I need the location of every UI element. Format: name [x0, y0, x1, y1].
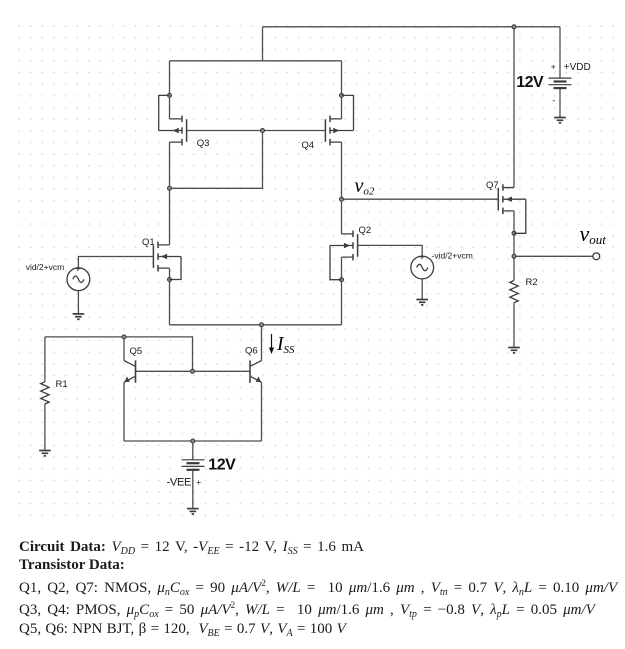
ground (below R2): [508, 348, 520, 353]
wire: Q3 drain down to Q1 drain: [169, 142, 171, 245]
wire: source -vid/2+vcm to ground: [421, 279, 423, 300]
wire: Q4 source lead: [341, 61, 343, 119]
junction: VDD rail / Q7 drain: [512, 25, 516, 29]
wire: R2 top: [513, 256, 515, 280]
transistor Q3 (PMOS, gate right): [159, 95, 187, 145]
wire: vo2 to Q7 gate: [342, 198, 499, 200]
wire: Q1 source down to tail rail: [169, 268, 171, 325]
wire: R2 bottom to ground: [513, 303, 515, 348]
wire: tail rail ISS: [170, 324, 342, 326]
resistor R1: [41, 382, 49, 404]
junction: Q4 source-body tie: [340, 93, 344, 97]
svg-text:Q7: Q7: [486, 180, 499, 191]
text: circuit data line: [19, 539, 364, 556]
junction: base rail riser: [191, 369, 195, 373]
wire: Q7 drain from VDD rail: [513, 27, 515, 188]
svg-text:+: +: [551, 62, 556, 72]
svg-text:vid/2+vcm: vid/2+vcm: [26, 262, 65, 272]
wire: battery V1 negative stem to ground: [559, 88, 561, 117]
junction: Q1 source-body tie: [168, 278, 172, 282]
text: PMOS data line: [19, 600, 595, 619]
wire: emitter rail: [124, 440, 262, 442]
current arrow ISS: [269, 334, 274, 354]
wire: R1 riser: [44, 337, 46, 382]
svg-text:+VDD: +VDD: [564, 62, 591, 73]
wire: battery V2 stem from emitter rail: [192, 441, 194, 460]
wire: Q5-Q6 base rail: [136, 370, 251, 372]
wire: tail rail down to Q6 collector: [261, 325, 263, 361]
battery V1 +VDD 12V: [549, 78, 572, 88]
transistor Q4 (PMOS, gate left, mirrored): [325, 95, 353, 145]
svg-text:12V: 12V: [516, 74, 544, 91]
svg-text:-: -: [552, 95, 555, 105]
wire: R1 bottom to ground: [44, 404, 46, 451]
junction: Q7 source-body tie: [512, 231, 516, 235]
resistor R2: [510, 281, 518, 303]
junction: Q3 source-body tie: [168, 93, 172, 97]
wire: battery V1 positive stem from VDD rail: [559, 27, 561, 78]
source V3 vid/2+vcm: [67, 266, 90, 290]
source V4 -vid/2+vcm: [411, 255, 434, 279]
wire: Q2 gate from source -vid/2+vcm: [358, 245, 423, 256]
svg-text:-vid/2+vcm: -vid/2+vcm: [432, 250, 473, 260]
svg-text:+: +: [196, 477, 201, 487]
junction: Q3 drain / diode tap: [168, 186, 172, 190]
wire: gate-to-drain diode tap of Q3: [170, 131, 263, 189]
svg-text:Q1: Q1: [142, 237, 155, 248]
text: NMOS data line: [19, 578, 617, 597]
svg-text:Q4: Q4: [302, 140, 315, 151]
ground (below source -vid/2+vcm): [416, 300, 428, 305]
junction: tail rail / Q6 collector: [260, 323, 264, 327]
junction: node vout: [512, 254, 516, 258]
svg-text:-VEE: -VEE: [167, 477, 191, 489]
wire: battery V2 to ground: [192, 470, 194, 508]
transistor Q5 (NPN BJT, mirrored, emitter left): [124, 360, 136, 382]
junction: emitter rail / battery V2: [191, 439, 195, 443]
wire: PMOS source rail: [170, 60, 342, 62]
svg-text:Q5: Q5: [130, 346, 143, 357]
output terminal vout: [593, 253, 600, 260]
junction: R1 node / Q5 collector: [122, 335, 126, 339]
wire: Q6 emitter down: [261, 382, 263, 441]
wire: riser from PMOS mirror to VDD rail: [262, 27, 264, 61]
text: transistor data heading: [19, 557, 125, 574]
wire: Q5 emitter down: [123, 382, 125, 441]
wire: VDD top rail: [263, 26, 561, 28]
junction: mirror gate node: [261, 129, 265, 133]
svg-text:R2: R2: [526, 277, 538, 288]
ground (below battery V1): [554, 118, 566, 123]
wire: Q3 source lead: [169, 61, 171, 119]
ground (below R1): [39, 451, 51, 456]
battery V2 -VEE 12V: [182, 460, 205, 470]
text: BJT data line: [19, 621, 346, 638]
wire: vout stub to terminal: [514, 255, 593, 257]
wire: Q3-Q4 gate rail: [187, 130, 326, 132]
transistor Q2 (NMOS, gate right, mirrored): [330, 231, 358, 280]
transistor Q7 (NMOS, gate left): [498, 184, 526, 233]
ground (below battery V2): [187, 509, 199, 514]
svg-text:Q2: Q2: [359, 225, 372, 236]
junction: node vo2: [340, 197, 344, 201]
svg-text:Q3: Q3: [197, 138, 210, 149]
svg-text:Q6: Q6: [245, 346, 258, 357]
ground (below source vid/2+vcm): [73, 314, 85, 319]
transistor Q1 (NMOS, gate left): [153, 242, 181, 280]
wire: Q7 source down to vout node: [513, 211, 515, 256]
wire: Q5 collector riser: [123, 337, 125, 361]
wire: source vid/2+vcm to ground: [77, 291, 79, 314]
transistor Q6 (NPN BJT, emitter right): [250, 360, 262, 382]
wire: Q4 drain down to Q2 drain (node vo2): [341, 142, 343, 234]
wire: Q2 source down to tail rail: [341, 257, 343, 325]
junction: Q2 source-body tie: [340, 278, 344, 282]
svg-text:12V: 12V: [208, 457, 236, 474]
svg-text:R1: R1: [56, 379, 68, 390]
wire: Q1 gate from source vid/2+vcm: [78, 257, 153, 268]
wire: R1 node to base rail riser: [45, 337, 193, 371]
